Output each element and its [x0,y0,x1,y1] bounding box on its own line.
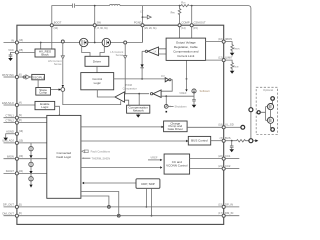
wire fault logic to DP junction [81,196,109,205]
svg-text:VREF: VREF [150,155,158,159]
DM line [4,215,240,217]
svg-text:VCONN Control: VCONN Control [166,163,188,167]
pin CC1 [222,157,225,160]
svg-text:DM_OUT: DM_OUT [3,212,15,216]
wire fault logic to charge pump [81,126,162,128]
wire fault logic to CC box [81,167,160,169]
pin BUS [222,139,225,142]
svg-text:Compensation and: Compensation and [173,50,199,54]
ground below compensation [137,113,139,114]
svg-text:DM_IN: DM_IN [225,211,233,215]
svg-text:(9): (9) [19,114,22,117]
svg-text:RILIM: RILIM [233,65,239,68]
pin SW [93,24,96,27]
buffer RT input [18,75,30,79]
transistor Q1 high-side FET [80,38,88,46]
OSC/PLL box [32,74,45,79]
svg-text:Fault Conditions: Fault Conditions [91,149,111,153]
wire summing to PWM comparator [63,91,121,104]
svg-text:(22): (22) [218,155,222,158]
wire fault logic to DM junction [81,192,119,215]
terminal gate (optional) [257,111,260,114]
wire OV output to error amp top input [161,80,172,92]
junction OVR vertical on control wire [186,78,188,80]
terminal bottom (optional) [271,128,275,132]
svg-text:COMP: COMP [182,21,190,25]
pin DM_IN [222,214,225,217]
svg-text:BUS: BUS [225,136,231,140]
junction SW between FETs [94,42,96,44]
wire CDP/SDP to fault logic (arrow left) [84,182,136,184]
wire control logic to OVR vertical [114,78,165,80]
pin IN [15,41,18,44]
svg-text:IN: IN [11,38,14,42]
junction to compensation network [138,93,140,95]
svg-text:(19): (19) [19,130,23,133]
HS current sense line with open arrow [61,43,64,85]
svg-text:Driver: Driver [93,59,101,63]
svg-text:VREF: VREF [179,91,187,95]
Charge Pump and Gate Driver box [164,121,188,132]
wire OVR box bottom vertical [186,60,188,89]
pin DM_OUT [15,214,18,217]
svg-text:Block: Block [41,53,49,57]
pin CC2 [222,167,225,170]
resistor RBUS (series) [237,140,249,142]
svg-text:THERM_SHDN: THERM_SHDN [92,156,111,160]
wire PGND vertical [142,6,144,43]
svg-text:CC2: CC2 [225,164,231,168]
wire fault logic to BUS control [81,140,186,142]
svg-text:(6): (6) [19,212,22,215]
svg-text:Sense: Sense [54,62,62,66]
svg-text:(26, 29, 31): (26, 29, 31) [144,27,156,30]
svg-text:Logic: Logic [94,81,102,85]
wire comparator output to control logic [97,90,115,97]
BUS Control box [188,136,210,145]
svg-text:Optional: Optional [263,88,273,92]
svg-text:(13): (13) [19,39,23,42]
ground RIMON [230,53,235,56]
pin BOOT [50,24,53,27]
ground CBUS [229,149,234,152]
wire error amp bottom input / softstart rail [161,95,194,97]
Control Logic box [81,73,114,90]
pin UL_SD [222,126,225,129]
wire CSN to box [191,6,193,39]
wire CC box to CC2 [190,168,223,170]
svg-text:(10): (10) [19,139,23,142]
wire charge pump to UL_SD pin [187,126,222,128]
svg-text:CSN/OUT: CSN/OUT [194,21,206,25]
terminal top (optional) [271,97,275,101]
svg-text:OSC/PLL: OSC/PLL [32,75,45,79]
label Shutdown [169,105,174,107]
pin FAULT [15,172,18,175]
svg-text:(20): (20) [19,155,23,158]
svg-text:(25): (25) [19,49,23,52]
Output Voltage Regulation box U3 [166,38,206,60]
wire UL_SD to terminal [225,126,240,128]
svg-text:(12): (12) [218,57,222,60]
annotation Fault Conditions [82,149,111,153]
inductor L1 [110,4,121,5]
pin IMON (left) [15,157,18,160]
svg-text:-1X: -1X [152,49,156,53]
current source on ILIM_ADJ [30,143,32,147]
pin DP_OUT [15,205,18,208]
junction circle DM [117,214,120,217]
terminal gate drive [241,125,245,129]
junction SW rail [94,5,96,7]
transistor QB (optional) [267,117,273,123]
wire BUS control to BUS pin [211,140,222,142]
svg-text:ILIM_ADJ: ILIM_ADJ [2,139,14,143]
svg-text:OV: OV [161,74,165,78]
ground softstart cap [192,105,197,108]
svg-text:(6): (6) [19,73,22,76]
current source on IMON [30,159,32,163]
diode D1 [140,51,144,79]
CC and VCONN Control box [164,154,190,174]
pin RT/SYNC [15,75,18,78]
transistor Q2 low-side FET [102,38,110,46]
wire CC box to CC1 [190,158,223,160]
junction rail at RCOMP [179,5,181,7]
svg-text:AGND: AGND [6,130,14,134]
switch shutdown symbol [164,105,168,109]
svg-text:ILIMIT: ILIMIT [225,56,233,60]
svg-text:Fault Logic: Fault Logic [56,155,71,159]
svg-text:PGND: PGND [134,21,142,25]
capacitor CVCC [9,52,16,58]
svg-text:IMON: IMON [225,37,232,41]
svg-text:(18): (18) [218,124,222,127]
IC boundary box [17,25,224,224]
LS current sense arrow and line [124,44,127,94]
ground RILIM [230,71,235,74]
wire between FETs [270,110,272,118]
node HS current sense tap [61,40,64,43]
wire IN from pin to HS FET chain [4,27,143,43]
wires A1 inputs from OVR box [159,49,167,54]
pin PGND [141,24,144,27]
svg-text:DP_IN: DP_IN [225,202,233,206]
wire OSC to Slope Comp [37,80,39,88]
svg-text:Gate Driver: Gate Driver [168,127,183,131]
junction circle DP [108,206,111,209]
pin ILIMIT [222,59,225,62]
Connected Fault Logic box [47,115,81,198]
svg-text:Regulation, Cable: Regulation, Cable [174,45,198,49]
svg-text:CDP, SDP: CDP, SDP [141,182,155,186]
svg-text:(3): (3) [220,137,223,140]
pin VCC [15,51,18,54]
pin AGND [15,132,18,135]
wire CDP to DM line [151,188,153,215]
svg-text:(7, 8, 30, 31): (7, 8, 30, 31) [94,27,108,30]
svg-text:Current Limit: Current Limit [177,54,194,58]
svg-text:RT/SYNC: RT/SYNC [2,73,14,77]
svg-text:Network: Network [133,109,145,113]
resistor RCS (series on rail) [181,5,189,7]
svg-text:UL_SD: UL_SD [225,123,234,127]
wire Driver to Control Logic [96,66,98,72]
wire BOOT to HVREG [51,27,53,49]
wire OVR to IMON pin [206,41,223,43]
pin IMON [222,40,225,43]
junction rail at CSN [191,5,193,7]
svg-text:CTRL2: CTRL2 [5,118,14,122]
svg-text:(14): (14) [181,27,185,30]
wire LS gate [100,46,104,56]
svg-text:(4): (4) [19,101,22,104]
node VBUS [249,139,253,143]
wire BUS external [225,140,236,142]
Slope Comp box [36,88,51,96]
node on VBUS vertical [249,108,253,112]
pin DP_IN [222,205,225,208]
wire to FET1 [271,100,273,103]
arrow VBUS out [253,140,256,142]
buffer U-sense (small open triangle) [143,15,152,19]
svg-text:Sense: Sense [116,53,124,57]
svg-text:(24): (24) [19,170,23,173]
junction shutdown [165,95,167,97]
wire RT/SYNC stub [4,76,16,78]
svg-text:FAULT: FAULT [6,169,15,173]
wire VOUT top rail [52,6,251,139]
wire VCC to HVREG [18,51,35,53]
svg-text:IMON: IMON [7,155,14,159]
svg-text:(10): (10) [54,27,58,30]
svg-text:(17): (17) [218,212,222,215]
pin ILIM_ADJ [15,141,18,144]
resistor RILIM [225,60,233,71]
junction BUS cap [231,140,233,142]
node LS current sense tap [124,41,127,44]
error amp A2 [150,93,152,95]
current source on FAULT [30,173,32,176]
resistor RCOMP (vertical to COMP pin) [178,6,181,39]
wire to terminal bottom [271,123,273,127]
wire enable to fault logic [55,106,60,115]
svg-text:Shutdown: Shutdown [175,105,187,109]
svg-text:RIMON: RIMON [233,47,240,50]
wire CDP to DP line [145,188,147,207]
Enable Logic box [35,101,55,109]
junction IN to HVREG [40,42,42,44]
PWM comparator (points left) [115,92,125,102]
svg-text:(15): (15) [218,203,222,206]
pin CTRL1 [15,116,18,119]
wire slope comp to summing node [51,89,60,91]
junction diode branch [141,78,143,80]
wire SW vertical [94,6,96,43]
svg-text:CC1: CC1 [225,154,231,158]
svg-text:Comp: Comp [39,91,47,95]
arrowhead into summing node [62,85,64,88]
current source softstart [192,89,196,93]
resistor RIMON [225,42,233,53]
optional FET dashed box [256,87,277,134]
pin EN/UVLO [15,103,18,106]
CDP, SDP box [136,179,160,189]
svg-text:BOOT: BOOT [54,21,62,25]
transistor QA (optional) [267,104,273,110]
svg-text:DP_OUT: DP_OUT [3,203,14,207]
ground AGND [6,134,16,138]
pin COMP [178,24,181,27]
svg-text:Comparator: Comparator [123,86,137,90]
svg-text:Softstart: Softstart [200,89,210,93]
svg-text:EN/UVLO: EN/UVLO [2,101,14,105]
svg-text:BUS Control: BUS Control [191,139,208,143]
capacitor CBOOT [73,4,75,8]
svg-text:(15): (15) [193,27,197,30]
wire gate to FETs [260,107,267,121]
svg-text:(21): (21) [218,165,222,168]
wire comparator top input from error amp [125,93,150,95]
svg-text:(8): (8) [19,119,22,122]
svg-text:(5): (5) [19,203,22,206]
Compensation Network box [127,105,150,113]
op-amp A1 (-1X) [142,50,145,52]
pin CTRL2 [15,121,18,124]
annotation THERM_SHDN [82,156,111,160]
junction node at 142.5,17.1 [142,16,144,18]
summing node circle [61,88,65,92]
wire OVR to ILIMIT pin [206,59,223,61]
DP line [4,206,240,208]
wire HS gate [82,46,90,56]
Driver box [85,56,109,66]
svg-text:LV: LV [140,10,143,14]
ground VCC cap [8,58,13,61]
svg-text:SW: SW [97,21,102,25]
svg-text:(16): (16) [218,38,222,41]
pin CSN/OUT [190,24,193,27]
HV_REG block [35,49,55,57]
svg-text:Output Voltage: Output Voltage [176,41,196,45]
svg-text:VCC: VCC [8,48,14,52]
svg-text:Logic: Logic [41,105,49,109]
capacitor CBUS [230,141,234,150]
svg-text:CTRL1: CTRL1 [5,114,14,118]
wire comparator bottom input to compensation [125,100,129,105]
